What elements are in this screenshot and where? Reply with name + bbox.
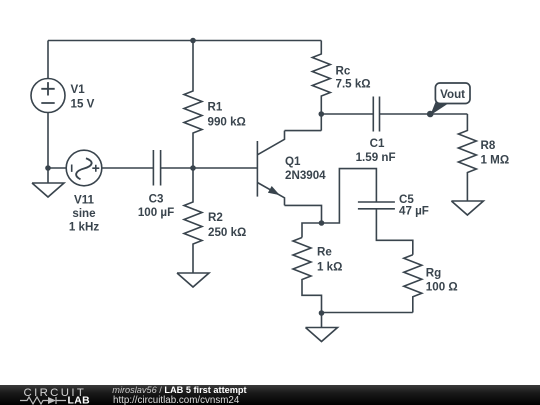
node dot C3/R1/R2/base [190, 165, 196, 171]
logo resistor-diode glyph [20, 397, 66, 404]
svg-text:1.59 nF: 1.59 nF [356, 151, 396, 164]
node Vout flag [430, 83, 470, 115]
svg-text:R8: R8 [481, 139, 496, 152]
svg-text:Rg: Rg [426, 267, 441, 280]
wire C1 to R8 [380, 113, 468, 115]
wire node to C1 [321, 113, 373, 115]
node dot emitter junction [319, 220, 325, 226]
resistor R1 [184, 41, 202, 169]
resistor R2 [184, 168, 202, 273]
svg-text:2N3904: 2N3904 [285, 169, 326, 182]
svg-text:V1: V1 [71, 83, 86, 96]
svg-text:990 kΩ: 990 kΩ [208, 116, 246, 129]
capacitor C1 [373, 97, 379, 132]
wire top rail [48, 40, 321, 42]
node dot ground junction [319, 310, 325, 316]
svg-text:Re: Re [317, 246, 332, 259]
wire collector to Rc branch [285, 130, 322, 132]
wire V1 bottom lead [47, 113, 49, 169]
ground (below R2) [177, 273, 209, 287]
svg-text:1 kΩ: 1 kΩ [317, 261, 342, 274]
svg-text:LAB: LAB [68, 396, 91, 405]
node dot Rc/C1 [319, 111, 325, 117]
svg-text:miroslav56 / LAB 5 first attem: miroslav56 / LAB 5 first attempt [112, 385, 246, 395]
wire V11 to C3 [102, 167, 154, 169]
wire Rg bottom to ground node [322, 312, 413, 314]
svg-text:C3: C3 [149, 193, 164, 206]
svg-text:15 V: 15 V [71, 98, 95, 111]
svg-text:47 µF: 47 µF [399, 205, 429, 218]
node dot V1/V11/ground [45, 165, 51, 171]
svg-text:sine: sine [72, 207, 96, 220]
source V11 sine [66, 150, 102, 186]
ground (bottom node) [306, 313, 338, 342]
wire emitter to node [285, 205, 322, 223]
ground (below V1) [32, 168, 64, 197]
svg-text:1 MΩ: 1 MΩ [481, 154, 510, 167]
resistor Rc [312, 41, 330, 131]
svg-text:R2: R2 [208, 211, 223, 224]
wire V1 top lead [47, 41, 49, 79]
svg-text:7.5 kΩ: 7.5 kΩ [336, 78, 371, 91]
svg-text:250 kΩ: 250 kΩ [208, 226, 246, 239]
node dot Vout [427, 111, 434, 118]
svg-text:http://circuitlab.com/cvnsm24: http://circuitlab.com/cvnsm24 [113, 395, 240, 405]
svg-text:Rc: Rc [336, 65, 351, 78]
svg-text:Q1: Q1 [285, 155, 301, 168]
svg-text:R1: R1 [208, 101, 223, 114]
ground (below R8) [451, 201, 483, 215]
svg-text:C1: C1 [370, 137, 385, 150]
wire to V11 [48, 167, 66, 169]
wire node to C5 top [322, 169, 377, 223]
wire C5 bottom to Rg [376, 209, 412, 255]
svg-text:100 µF: 100 µF [138, 206, 174, 219]
svg-text:100 Ω: 100 Ω [426, 281, 458, 294]
wire C3 to node [161, 167, 193, 169]
resistor Re [293, 238, 322, 314]
wire node to Re [302, 223, 322, 238]
svg-text:1 kHz: 1 kHz [69, 221, 99, 234]
resistor R8 [458, 114, 476, 201]
footer bar [0, 385, 540, 405]
resistor Rg [404, 255, 422, 313]
svg-text:V11: V11 [74, 194, 95, 207]
capacitor C5 [358, 202, 395, 209]
capacitor C3 [153, 150, 160, 186]
wire base [193, 167, 257, 169]
svg-text:Vout: Vout [440, 88, 465, 101]
voltage source V1 [31, 79, 65, 113]
transistor Q1 2N3904 [256, 141, 258, 197]
node dot top rail/R1 [190, 38, 196, 44]
